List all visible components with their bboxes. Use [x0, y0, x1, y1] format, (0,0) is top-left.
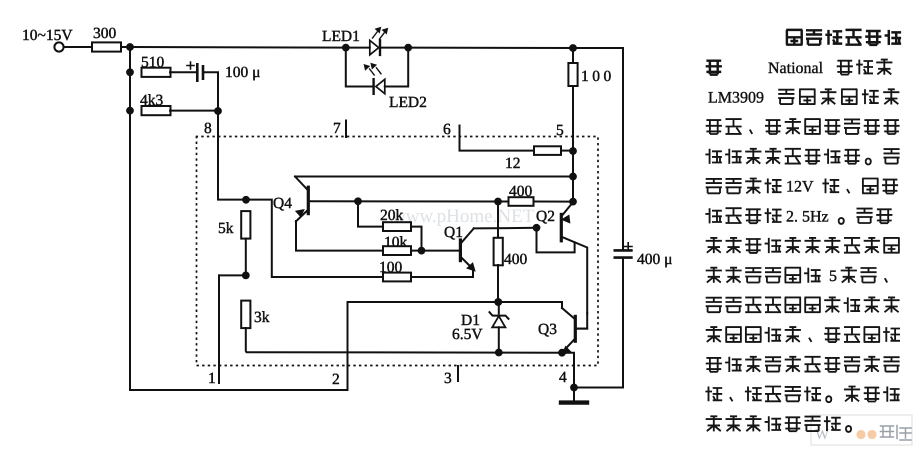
wire top rail LED to R100 node	[408, 47, 573, 49]
wire Q4 collector row	[295, 176, 573, 178]
wire Q4 base row	[310, 200, 498, 202]
IC LM3909 dashed outline	[197, 137, 599, 366]
LED2 light arrows	[365, 64, 381, 75]
wire ground to C400u	[574, 259, 623, 388]
svg-text:5: 5	[829, 268, 837, 285]
paragraph line13	[705, 386, 899, 402]
wire left rail down	[130, 47, 348, 390]
LED2 branch wire left	[346, 48, 374, 87]
wire terminal to R 300	[64, 46, 92, 48]
svg-text:2: 2	[332, 371, 340, 388]
LED1 light arrows	[373, 28, 387, 39]
wire 3k bottom to bottom row	[246, 328, 562, 353]
LED2 diode	[374, 79, 385, 94]
node pin8 top	[214, 107, 222, 115]
resistor 100 emitter	[383, 273, 411, 282]
svg-text:6.5V: 6.5V	[452, 326, 483, 343]
wire 20k right lead	[411, 227, 422, 251]
paragraph line5	[705, 148, 899, 164]
wire R510 to C100u	[170, 71, 196, 73]
ground	[561, 388, 587, 403]
wire R400v bottom lead	[497, 265, 499, 302]
node LED right	[404, 44, 412, 52]
svg-text:3: 3	[444, 370, 452, 387]
paragraph line11	[706, 327, 900, 342]
LED1 diode	[346, 40, 408, 55]
node 5k-3k junction	[242, 272, 250, 280]
svg-text:100 μ: 100 μ	[225, 64, 260, 81]
pin 3 stub	[457, 366, 459, 381]
node top rail at R100	[569, 44, 577, 52]
paragraph line6 head	[706, 178, 782, 193]
capacitor C 400u plus sign	[625, 243, 633, 251]
paragraph title line1	[786, 30, 901, 45]
transistor Q1	[460, 228, 474, 270]
svg-text:12V: 12V	[786, 179, 814, 196]
svg-text:5k: 5k	[218, 220, 234, 237]
transistor Q2	[561, 202, 587, 313]
node D1 bottom	[495, 349, 503, 357]
pin 4 wire	[562, 353, 574, 388]
node LED left	[342, 44, 350, 52]
transistor Q4	[295, 177, 308, 222]
capacitor C 100u	[197, 64, 203, 80]
wire R400v top lead	[497, 202, 499, 239]
paragraph line7 tail	[839, 209, 893, 224]
svg-text:National: National	[768, 60, 824, 77]
node 20k tap	[354, 197, 362, 205]
resistor 400 horizontal	[509, 197, 534, 206]
svg-text:2. 5Hz: 2. 5Hz	[786, 208, 829, 225]
paragraph line2 tail	[837, 59, 893, 75]
node rail at pin5 row	[569, 147, 577, 155]
wire pin2 row to Q3 collector	[348, 302, 563, 308]
pin 1 wire	[218, 275, 220, 383]
pin 8 wire into IC	[218, 111, 246, 200]
node 20k-10k junction	[418, 247, 426, 255]
resistor 10k	[383, 246, 411, 255]
wire R100 top	[572, 48, 574, 63]
node Q2 emitter top	[569, 198, 577, 206]
node Q3 emitter	[558, 349, 566, 357]
paragraph line2 char	[706, 61, 722, 75]
zener diode D1	[490, 302, 509, 353]
wire R400h to rail	[534, 201, 574, 203]
wire 20k left lead	[358, 201, 383, 226]
svg-text:7: 7	[333, 120, 341, 137]
svg-text:4: 4	[559, 369, 567, 386]
resistor 100 top right	[568, 63, 577, 86]
paragraph line12	[706, 357, 900, 373]
paragraph line8	[706, 238, 900, 254]
resistor 4k3	[142, 106, 171, 115]
wire 10k to Q1 base	[411, 250, 459, 252]
wire C100u to pin8 corner	[204, 72, 218, 111]
wire R400h left lead	[498, 201, 509, 203]
wire 100 to Q1 emitter	[411, 268, 473, 277]
paragraph line9 tail	[841, 267, 888, 283]
paragraph line6 tail	[822, 179, 898, 194]
svg-text:6: 6	[443, 121, 451, 138]
svg-text:3k: 3k	[254, 309, 270, 326]
node D1 top	[494, 298, 502, 306]
node Q2 base junction	[533, 224, 541, 232]
node A top rail	[126, 43, 134, 51]
capacitor C 100u plus sign	[187, 62, 194, 69]
svg-text:100: 100	[581, 68, 615, 85]
pin 7 stub	[345, 121, 347, 138]
svg-text:LED1: LED1	[322, 28, 360, 45]
wire 5k to 3k	[245, 239, 247, 276]
wire junction to pin1	[219, 274, 246, 276]
node ground junction	[570, 384, 578, 392]
paragraph line7 head	[705, 208, 781, 223]
resistor 5k	[241, 211, 250, 239]
resistor 3k	[241, 301, 250, 329]
resistor 400 vertical	[494, 238, 503, 265]
wire 5k top to Q4-emitter-column corner	[246, 200, 383, 277]
pin 6 wire	[460, 126, 535, 151]
svg-text:Q3: Q3	[538, 321, 557, 338]
paragraph line14	[706, 416, 851, 432]
wire top rail to right corner and down to C 400u	[573, 48, 623, 249]
watermark box bottom right	[811, 415, 912, 445]
wire R100 down the x573 rail	[572, 86, 574, 202]
svg-text:Q4: Q4	[273, 195, 292, 212]
LED2 branch wire right	[385, 48, 408, 87]
wire Q1 collector to Q2 base	[474, 227, 537, 230]
paragraph line4	[706, 119, 900, 135]
input terminal	[54, 42, 63, 51]
wire Q2 base-collector loop	[537, 228, 575, 253]
paragraph line3 tail	[778, 89, 899, 105]
wire Q4 emitter down to 10k row	[296, 221, 383, 251]
svg-text:5: 5	[556, 122, 564, 139]
svg-text:8: 8	[204, 120, 212, 137]
svg-text:LED2: LED2	[389, 94, 427, 111]
svg-text:10~15V: 10~15V	[22, 27, 73, 44]
transistor Q3	[562, 308, 587, 354]
svg-text:400: 400	[504, 251, 528, 268]
pin 2 wire	[347, 302, 349, 390]
node R400v top	[494, 198, 502, 206]
resistor 300	[92, 42, 121, 51]
wire Q2 collector to Q3 base	[577, 313, 587, 328]
node 5k top	[242, 196, 250, 204]
resistor 12	[534, 146, 561, 155]
node 510 branch	[126, 68, 134, 76]
wire R300 to node A	[121, 46, 130, 48]
wire top rail A to LED1 anode node	[130, 46, 346, 49]
svg-text:400 μ: 400 μ	[637, 251, 672, 268]
resistor 20k	[383, 222, 411, 231]
paragraph line9 head	[706, 267, 821, 283]
svg-text:Q2: Q2	[536, 208, 555, 225]
node 4k3 left	[126, 107, 134, 115]
node R400v bottom	[494, 298, 502, 306]
node rail at collector row	[569, 173, 577, 181]
svg-text:12: 12	[505, 155, 521, 172]
resistor 510	[142, 68, 171, 77]
svg-text:www.pHome.NET: www.pHome.NET	[392, 206, 535, 227]
svg-text:1: 1	[208, 370, 216, 387]
paragraph line10	[706, 297, 900, 313]
wire R4k3 to pin8 node	[170, 110, 218, 112]
svg-text:300: 300	[93, 25, 117, 42]
wire R12 to rail	[561, 150, 573, 152]
capacitor C 400u	[615, 250, 632, 257]
svg-text:LM3909: LM3909	[708, 90, 764, 107]
